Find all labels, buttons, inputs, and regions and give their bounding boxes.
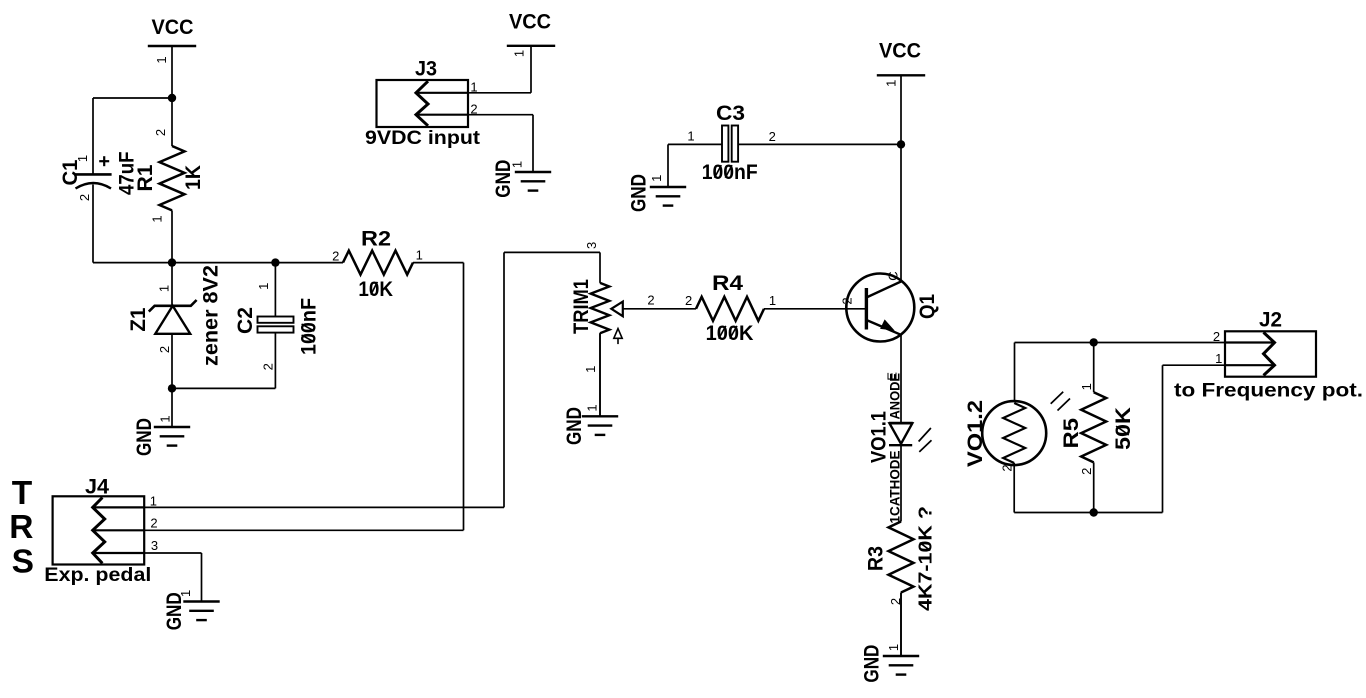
svg-text:1: 1 — [886, 644, 901, 651]
svg-text:2: 2 — [685, 293, 692, 308]
svg-text:1: 1 — [157, 285, 172, 292]
ground symbol (J4) — [201, 553, 203, 602]
svg-text:GND: GND — [563, 407, 586, 445]
ground symbol (R3) — [900, 593, 902, 657]
svg-text:J3: J3 — [415, 58, 437, 81]
capacitor C2 plate 1 — [258, 317, 294, 323]
connector J3 chevrons — [416, 81, 428, 126]
transistor Q1 emitter pin label E — [885, 372, 900, 381]
power symbol VCC (J3) pin 1 label — [512, 50, 527, 57]
wire C2 top lead — [274, 263, 276, 317]
svg-text:VCC: VCC — [152, 16, 194, 39]
resistor R1 pin 1 label — [150, 215, 165, 222]
trimpot TRIM1 adjust arrow — [617, 338, 619, 344]
ground symbol (TRIM1) GND label — [563, 407, 586, 445]
ground symbol (R3) pin 1 label — [886, 644, 901, 651]
capacitor C1 plate (straight +) — [75, 173, 112, 176]
svg-text:1: 1 — [256, 283, 271, 290]
svg-text:R4: R4 — [712, 272, 743, 295]
connector J2 pin 2 stub — [1225, 341, 1275, 343]
resistor R5 pin 1 label — [1079, 383, 1094, 390]
transistor Q1 circle — [846, 274, 914, 342]
svg-text:2: 2 — [261, 363, 276, 370]
ground symbol (under Z1) — [171, 388, 173, 427]
resistor R2 zigzag — [343, 251, 413, 275]
svg-text:R: R — [9, 509, 33, 546]
capacitor C2 pin 1 label — [256, 283, 271, 290]
junction bus/R1/Z1 — [168, 258, 176, 266]
photoresistor VO1.2 light arrow 1 — [1051, 392, 1064, 404]
svg-text:GND: GND — [133, 418, 156, 456]
svg-text:2: 2 — [1079, 468, 1094, 475]
svg-text:2: 2 — [157, 346, 172, 353]
photoresistor VO1.2 pin 2 label — [1000, 464, 1015, 471]
capacitor C1 pin 2 label — [77, 194, 92, 201]
svg-text:1: 1 — [510, 161, 525, 168]
svg-text:1: 1 — [649, 175, 664, 182]
svg-text:TRIM1: TRIM1 — [570, 279, 593, 334]
wire TRIM1 pin3 horizontal — [504, 251, 600, 253]
power symbol VCC (top left) pin 1 label — [154, 56, 169, 63]
svg-text:VCC: VCC — [879, 40, 921, 63]
ground symbol (TRIM1) pin 1 label — [585, 404, 600, 411]
ground symbol (J3) pin 1 label — [510, 161, 525, 168]
svg-text:3: 3 — [584, 242, 599, 249]
junction VCC/R1/C1 — [168, 94, 176, 102]
svg-text:1: 1 — [1215, 351, 1222, 366]
junction R5 bottom — [1090, 508, 1098, 516]
capacitor C1 value 47uF — [116, 151, 139, 195]
wire up to J2 pin1 — [1162, 365, 1164, 512]
wire TRIM1 pin3 vertical lead — [599, 252, 601, 283]
svg-text:2: 2 — [1213, 329, 1220, 344]
svg-text:1: 1 — [158, 415, 173, 422]
ground symbol (J4) pin 1 label — [178, 590, 193, 597]
svg-text:J4: J4 — [85, 476, 109, 499]
capacitor C3 plate 1 — [722, 126, 728, 162]
wire TRIM1 pin1 lead — [599, 333, 601, 416]
capacitor C3 plate 2 — [732, 126, 738, 162]
connector J3 pin 1 stub — [416, 92, 468, 94]
svg-text:1: 1 — [512, 50, 527, 57]
wire R5 bottom lead — [1093, 462, 1095, 512]
svg-text:1CATHODE: 1CATHODE — [888, 451, 903, 524]
svg-text:1K: 1K — [182, 165, 205, 190]
wire C2 bottom lead — [274, 333, 276, 389]
trimpot TRIM1 wiper arrow — [611, 302, 623, 317]
wire R5 top lead — [1093, 342, 1095, 392]
wire R4 to Q1 base — [764, 308, 866, 310]
capacitor C2 value 100nF — [298, 298, 321, 355]
ground symbol (under Z1) pin 1 label — [158, 415, 173, 422]
photoresistor VO1.2 light arrow 2 — [1058, 399, 1071, 411]
wire Z1 top lead — [171, 263, 173, 305]
connector J4 body — [53, 496, 145, 564]
resistor R1 pin 2 label — [153, 129, 168, 136]
svg-text:VO1.2: VO1.2 — [964, 400, 987, 467]
zener Z1 value zener 8V2 — [200, 265, 223, 366]
junction R5 top — [1090, 338, 1098, 346]
svg-text:2: 2 — [1000, 464, 1015, 471]
svg-text:R3: R3 — [865, 546, 888, 571]
connector J4 chevrons — [93, 498, 105, 564]
transistor Q1 collector stroke — [866, 282, 901, 298]
LED VO1.1 pin name 1CATHODE — [888, 451, 903, 524]
svg-text:ANODE: ANODE — [888, 373, 903, 420]
svg-text:Z1: Z1 — [127, 307, 150, 331]
wire LED cathode down to R3 — [900, 445, 902, 521]
svg-text:2: 2 — [840, 297, 855, 304]
svg-text:100K: 100K — [706, 322, 754, 345]
resistor R3 value 4K7-10K ? — [916, 506, 936, 611]
capacitor C2 pin 2 label — [261, 363, 276, 370]
svg-text:100nF: 100nF — [298, 298, 321, 355]
svg-text:1: 1 — [178, 590, 193, 597]
connector J2 chevrons — [1264, 332, 1275, 375]
svg-text:100nF: 100nF — [702, 161, 758, 184]
wire R1 top lead — [171, 98, 173, 146]
svg-text:9VDC input: 9VDC input — [365, 128, 481, 149]
trimpot TRIM1 pin 3 label — [584, 242, 599, 249]
wire TRIM1 wiper to R4 — [623, 308, 696, 310]
svg-text:2: 2 — [77, 194, 92, 201]
svg-text:S: S — [12, 544, 34, 581]
connector J4 pin 3 stub — [93, 552, 145, 554]
trimpot TRIM1 label — [570, 279, 593, 334]
svg-text:C3: C3 — [716, 102, 745, 125]
wire bottom rail LDR-R5-J2pin1 — [1014, 512, 1162, 514]
transistor Q1 emitter arrow — [881, 320, 893, 329]
svg-text:2: 2 — [332, 248, 339, 263]
resistor R3 pin 2 label — [888, 598, 903, 605]
wire C1 left leg upper — [92, 98, 94, 174]
connector J4 pin 1 stub — [93, 506, 145, 508]
ground symbol (C3) GND label — [628, 174, 651, 212]
resistor R5 pin 2 label — [1079, 468, 1094, 475]
svg-text:J2: J2 — [1259, 309, 1282, 332]
LED VO1.1 cathode bar — [889, 444, 912, 446]
resistor R4 zigzag — [696, 297, 764, 321]
resistor R5 label — [1060, 418, 1083, 449]
capacitor C1 pin 1 label — [75, 155, 90, 162]
photoresistor VO1.2 label — [964, 400, 987, 467]
LED VO1.1 triangle — [890, 423, 913, 444]
wire J4 pin3 to GND — [144, 552, 201, 554]
junction VCC/C3/Q1 collector — [897, 140, 905, 148]
svg-text:1: 1 — [154, 56, 169, 63]
svg-text:3: 3 — [151, 538, 158, 553]
capacitor C2 label — [234, 307, 257, 334]
capacitor C1 plate (curved -) — [76, 183, 112, 189]
connector J4 pin 2 stub — [93, 529, 145, 531]
transistor Q1 label — [916, 294, 939, 319]
svg-text:T: T — [12, 475, 33, 512]
svg-text:2: 2 — [153, 129, 168, 136]
wire main bus y=262 (C1 to R2) — [93, 262, 343, 264]
svg-text:GND: GND — [861, 645, 884, 683]
resistor R1 label — [134, 164, 157, 191]
ground symbol (J3) — [532, 115, 534, 172]
wire LDR bottom lead — [1013, 463, 1015, 513]
svg-text:VCC: VCC — [509, 11, 551, 34]
wire R3 to GND — [900, 593, 902, 656]
svg-text:2: 2 — [647, 293, 654, 308]
wire J4 pin1 to TRIM net — [144, 506, 504, 508]
resistor R3 label — [865, 546, 888, 571]
ground symbol (J4) GND label — [163, 592, 186, 630]
resistor R3 zigzag — [889, 522, 914, 593]
wire VCC node to C1 top — [93, 97, 172, 99]
power symbol VCC (Q1 collector) pin 1 label — [883, 80, 898, 87]
svg-text:1: 1 — [1079, 383, 1094, 390]
photoresistor VO1.2 circle — [982, 401, 1046, 465]
resistor R1 zigzag — [160, 146, 185, 210]
svg-text:1: 1 — [150, 215, 165, 222]
wire R1 bottom lead — [171, 210, 173, 262]
svg-text:C2: C2 — [234, 307, 257, 334]
ground symbol (R3) GND label — [861, 645, 884, 683]
zener Z1 label — [127, 307, 150, 331]
capacitor C2 plate 2 — [258, 326, 294, 332]
svg-text:1: 1 — [769, 293, 776, 308]
svg-text:1: 1 — [416, 247, 423, 262]
svg-text:1: 1 — [883, 80, 898, 87]
resistor R1 value 1K — [182, 165, 205, 190]
resistor R5 value 50K — [1112, 407, 1135, 450]
photoresistor VO1.2 zigzag — [1003, 403, 1025, 463]
LED VO1.1 label — [868, 411, 891, 463]
zener Z1 cathode bar — [149, 300, 197, 312]
transistor Q1 collector pin label C — [886, 271, 901, 280]
LED VO1.1 anode bar — [889, 422, 913, 424]
wire TRIM1 pin3 down to J4 pin1 — [503, 252, 505, 507]
connector J2 body — [1225, 331, 1316, 376]
svg-text:1: 1 — [583, 366, 598, 373]
svg-text:1: 1 — [687, 129, 694, 144]
connector J3 body — [377, 80, 469, 127]
resistor R5 zigzag — [1081, 392, 1106, 462]
ground symbol (TRIM1) — [599, 333, 601, 416]
wire J2 pin2 to LDR top — [1015, 342, 1226, 344]
transistor Q1 base pin 2 label — [840, 297, 855, 304]
connector J3 pin 2 stub — [416, 114, 468, 116]
svg-text:Q1: Q1 — [916, 294, 939, 319]
svg-text:C: C — [886, 271, 901, 280]
LED VO1.1 light arrow 1 — [919, 428, 931, 442]
transistor Q1 base bar — [865, 288, 868, 330]
wire R2 right then down to J4 pin2 — [413, 262, 464, 264]
svg-text:C1: C1 — [59, 159, 82, 185]
svg-text:1: 1 — [585, 404, 600, 411]
capacitor C1 plus sign — [99, 160, 109, 162]
wire VCC node down to Q1 collector — [900, 144, 902, 281]
svg-text:GND: GND — [628, 174, 651, 212]
svg-text:1: 1 — [75, 155, 90, 162]
wire GND to C3 pin1 — [668, 143, 723, 145]
ground symbol (under Z1) GND label — [133, 418, 156, 456]
svg-text:to Frequency pot.: to Frequency pot. — [1174, 381, 1363, 402]
svg-text:2: 2 — [769, 129, 776, 144]
trimpot TRIM1 zigzag — [591, 283, 610, 333]
zener Z1 pin 2 label — [157, 346, 172, 353]
wire J4 pin2 to R2 net — [144, 529, 463, 531]
wire C2 bottom to Z1 node — [172, 387, 275, 389]
LED VO1.1 pin name ANODE — [888, 373, 903, 420]
zener Z1 pin 1 label — [157, 285, 172, 292]
svg-text:R5: R5 — [1060, 418, 1083, 449]
wire J3 pin2 to GND — [468, 114, 533, 116]
svg-text:10K: 10K — [358, 278, 393, 301]
svg-text:Exp. pedal: Exp. pedal — [44, 565, 151, 586]
zener Z1 triangle — [155, 306, 190, 334]
ground symbol (J3) GND label — [492, 160, 515, 198]
capacitor C1 label — [59, 159, 82, 185]
wire Z1 bottom lead — [171, 334, 173, 389]
wire C1 bottom leg — [92, 185, 94, 263]
connector J2 pin 1 stub — [1225, 364, 1275, 366]
svg-text:4K7-10K ?: 4K7-10K ? — [916, 506, 936, 611]
svg-text:zener 8V2: zener 8V2 — [200, 265, 223, 366]
trimpot TRIM1 pin 1 label — [583, 366, 598, 373]
wire J3 pin1 to VCC — [468, 92, 531, 94]
svg-text:R1: R1 — [134, 164, 157, 191]
ground symbol (C3) pin 1 label — [649, 175, 664, 182]
junction Z1/C2/GND — [168, 384, 176, 392]
svg-text:1: 1 — [150, 494, 157, 509]
junction bus/C2 — [271, 258, 279, 266]
wire C3 pin2 to VCC node — [738, 143, 901, 145]
svg-text:50K: 50K — [1112, 407, 1135, 450]
ground symbol (C3) — [667, 144, 669, 187]
LED VO1.1 light arrow 2 — [919, 440, 931, 452]
svg-text:2: 2 — [150, 515, 157, 530]
svg-text:R2: R2 — [361, 228, 391, 251]
transistor Q1 emitter stroke — [866, 320, 901, 335]
wire Q1 emitter down — [900, 335, 902, 423]
